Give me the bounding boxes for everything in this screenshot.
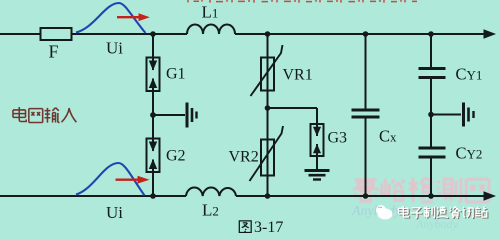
svg-text:CY2: CY2 [456, 144, 483, 163]
svg-text:F: F [49, 42, 59, 62]
svg-text:Ui: Ui [106, 39, 123, 58]
svg-text:G3: G3 [328, 130, 348, 147]
svg-text:CY1: CY1 [456, 65, 483, 84]
svg-text:L1: L1 [202, 3, 219, 22]
svg-text:G1: G1 [166, 66, 186, 83]
svg-text:L2: L2 [202, 201, 219, 220]
svg-text:VR1: VR1 [283, 67, 313, 84]
svg-text:Anybody: Anybody [415, 217, 459, 231]
svg-text:3-17: 3-17 [254, 219, 283, 233]
svg-text:Ui: Ui [106, 203, 123, 222]
svg-text:Cx: Cx [379, 127, 397, 146]
svg-text:G2: G2 [166, 148, 186, 165]
svg-text:VR2: VR2 [229, 149, 259, 166]
